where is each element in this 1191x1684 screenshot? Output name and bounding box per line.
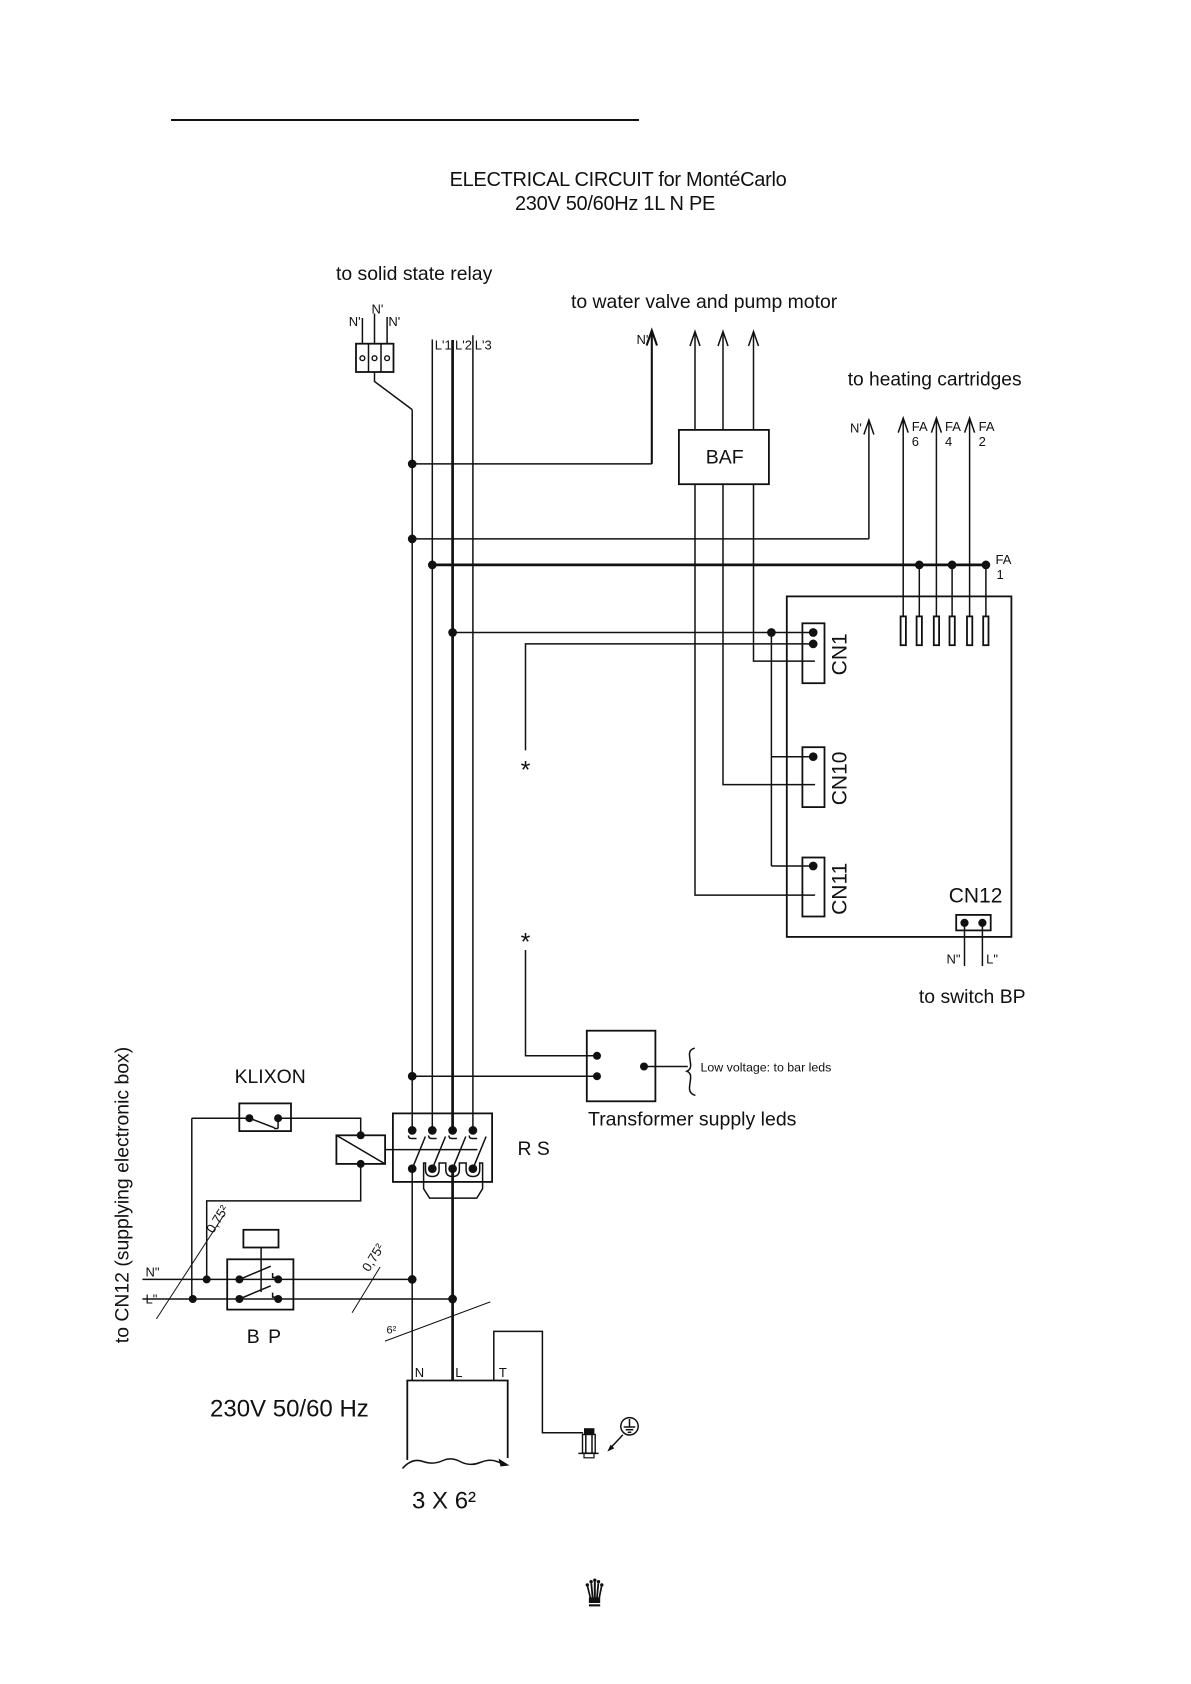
mains cable box	[407, 1381, 507, 1461]
wire N bus to transformer pin	[412, 1075, 597, 1077]
mains cable arrow tip	[499, 1459, 510, 1467]
svg-text:CN12: CN12	[949, 885, 1003, 908]
wire KLIXON right to coil	[278, 1118, 361, 1135]
wire CN12 L" down	[981, 923, 983, 966]
arrow FA6 to heating cartridge	[898, 418, 908, 616]
RS contact 2 bottom node	[428, 1164, 437, 1173]
arrow BAF output 3	[749, 332, 759, 430]
svg-text:to water valve and pump motor: to water valve and pump motor	[571, 291, 838, 313]
RS blade 3	[453, 1137, 466, 1169]
node KLIXON pin right	[274, 1114, 282, 1122]
wire L'1 vertical	[431, 340, 433, 1131]
svg-text:KLIXON: KLIXON	[235, 1066, 306, 1088]
top rule	[171, 119, 639, 121]
earth symbol circle	[621, 1418, 638, 1435]
node N-heating junction	[408, 535, 417, 544]
svg-text:CN10: CN10	[829, 752, 852, 806]
RS contact 4 top node	[469, 1126, 478, 1135]
BP seat lower	[273, 1293, 277, 1298]
wire RS contact3 bold L down	[451, 1169, 454, 1381]
wire pin2 N'	[374, 314, 376, 344]
svg-text:Transformer supply leds: Transformer supply leds	[588, 1109, 797, 1131]
svg-text:230V 50/60 Hz: 230V 50/60 Hz	[210, 1396, 369, 1423]
wire pin1 N'	[361, 318, 363, 344]
relay switch block RS	[393, 1113, 492, 1182]
svg-text:L": L"	[146, 1292, 158, 1307]
svg-text:N': N'	[349, 314, 361, 329]
arrow BAF output 1	[690, 332, 700, 430]
arrow to earth symbol	[607, 1435, 623, 1452]
wire BAF1 to CN11 lower pin	[695, 484, 815, 895]
connector CN10	[802, 747, 824, 807]
wire KLIXON left down to L"	[191, 1118, 193, 1299]
RS contact 1 bottom node	[408, 1164, 417, 1173]
RS bottom bus pouch	[424, 1163, 483, 1198]
node N-transformer junction	[408, 1072, 417, 1081]
transformer box	[587, 1031, 656, 1102]
node CN1 pin2	[809, 640, 818, 649]
wire L" line	[142, 1298, 452, 1300]
arrow FA2 to heating cartridge	[965, 418, 975, 616]
svg-text:*: *	[521, 757, 531, 785]
svg-text:FA: FA	[945, 419, 961, 434]
RS contact 3 bottom node	[448, 1164, 457, 1173]
svg-text:3 X 6²: 3 X 6²	[412, 1488, 476, 1515]
BP blade lower	[239, 1286, 270, 1299]
svg-text:1: 1	[997, 567, 1004, 582]
node CN10 pin	[809, 752, 818, 761]
arrow N' to heating	[864, 420, 874, 539]
relay linkage line	[385, 1149, 477, 1151]
svg-text:Low voltage: to bar leds: Low voltage: to bar leds	[701, 1061, 832, 1075]
thermal switch KLIXON	[239, 1103, 291, 1131]
fuse holder pin 5	[967, 616, 972, 645]
RS contact 4 bottom node	[469, 1164, 478, 1173]
node FA1-fuse6	[982, 561, 991, 570]
RS blade 4	[473, 1137, 486, 1169]
wire RS contact1 down to N"	[411, 1169, 413, 1280]
svg-text:6²: 6²	[387, 1325, 397, 1337]
wire FA1 bold line	[432, 564, 986, 567]
wire KLIXON left lead	[192, 1117, 250, 1119]
svg-text:ELECTRICAL CIRCUIT for MontéCa: ELECTRICAL CIRCUIT for MontéCarlo	[450, 169, 787, 191]
RS contact 1 top node	[408, 1126, 417, 1135]
svg-text:L'1: L'1	[435, 338, 452, 353]
RS blade 2	[432, 1137, 445, 1169]
node L" klixon junction	[189, 1295, 197, 1303]
svg-text:T: T	[499, 1365, 507, 1380]
svg-text:CN11: CN11	[829, 863, 852, 915]
cable mark 0,75 near klixon return	[156, 1215, 223, 1319]
svg-text:L'3: L'3	[475, 338, 492, 353]
svg-text:L: L	[455, 1365, 462, 1380]
wire BAF2 to CN10 lower pin	[723, 484, 815, 784]
earth clamp flange	[578, 1452, 598, 1454]
RS contact 3 top node	[448, 1126, 457, 1135]
fuse holder pin 3	[934, 616, 939, 645]
crown logo	[586, 1579, 604, 1607]
N bus vertical (upper)	[411, 410, 413, 1131]
node transformer output pin	[640, 1063, 648, 1071]
arrow FA4 to heating cartridge	[931, 418, 941, 616]
wire FA1 stub to fuse 6	[985, 565, 987, 617]
push button stem	[260, 1248, 262, 1293]
wire N to water valve arrow	[412, 463, 652, 465]
BP blade upper	[239, 1266, 270, 1279]
svg-text:N': N'	[372, 302, 384, 317]
fuse holder pin 6	[983, 616, 988, 645]
wire BAF3 to CN1 lower pin	[754, 484, 815, 661]
node line A top	[767, 628, 776, 637]
wire L'2 to CN1	[453, 632, 814, 634]
wire pin3 N'	[386, 317, 388, 344]
node transformer pin 2	[593, 1072, 601, 1080]
mains cable wavy end	[403, 1459, 506, 1469]
svg-text:to heating cartridges: to heating cartridges	[848, 370, 1022, 391]
wire N to heating N' arrow	[412, 538, 869, 540]
svg-text:N': N'	[637, 332, 649, 347]
filter BAF	[679, 430, 769, 484]
svg-text:N": N"	[946, 952, 960, 967]
node CN11 pin	[809, 862, 818, 871]
node L-L" junction	[448, 1295, 457, 1304]
earth clamp foot	[584, 1453, 594, 1457]
node coil pin top	[357, 1131, 365, 1139]
node coil pin bottom	[357, 1160, 365, 1168]
fuse holder pin 2	[917, 616, 922, 645]
svg-text:to solid state relay: to solid state relay	[336, 263, 493, 285]
earth clamp body	[583, 1435, 596, 1454]
svg-text:2: 2	[979, 434, 986, 449]
relay coil RS	[336, 1135, 385, 1164]
node CN1 pin1	[809, 628, 818, 637]
push button actuator	[243, 1230, 278, 1248]
wire transformer output	[644, 1066, 688, 1068]
svg-text:FA: FA	[912, 419, 928, 434]
brace low voltage	[687, 1048, 696, 1095]
node BP pin SE	[274, 1295, 282, 1303]
svg-text:L'2: L'2	[455, 338, 472, 353]
earth clamp cap	[584, 1428, 594, 1434]
wire CN12 N" down	[964, 923, 966, 966]
node KLIXON pin left	[245, 1114, 253, 1122]
node CN12 pin L	[978, 919, 986, 927]
svg-text:4: 4	[945, 434, 952, 449]
node BP pin NW	[235, 1275, 243, 1283]
node L'1-FA1 junction	[428, 561, 437, 570]
cable mark 0,75 right of BP	[352, 1267, 380, 1313]
RS blade 1	[412, 1137, 425, 1169]
node coil return to N"	[203, 1275, 211, 1283]
node BP pin NE	[274, 1275, 282, 1283]
wire N down to mains terminal	[411, 1279, 413, 1380]
wire T earth lead	[494, 1331, 583, 1432]
wire CN1 pin2 branch with corner	[526, 644, 814, 751]
node FA1-fuse4	[948, 561, 957, 570]
svg-text:N: N	[415, 1365, 424, 1380]
svg-text:to switch BP: to switch BP	[919, 986, 1026, 1008]
arrow N' to water valve	[647, 331, 657, 464]
svg-text:N": N"	[146, 1265, 160, 1280]
fuse holder pin 4	[950, 616, 955, 645]
svg-text:6: 6	[912, 434, 919, 449]
wire L'3 vertical	[472, 335, 474, 1130]
node N-valve junction	[408, 460, 417, 469]
node RS to N"	[408, 1275, 417, 1284]
node CN12 pin N	[960, 919, 968, 927]
svg-text:R S: R S	[518, 1138, 550, 1160]
wire from block to N bus	[375, 372, 413, 410]
svg-text:FA: FA	[996, 552, 1012, 567]
fuse holder pin 1	[901, 616, 906, 645]
node BP pin SW	[235, 1295, 243, 1303]
switch BP box	[227, 1259, 293, 1309]
svg-text:to CN12 (supplying electronic: to CN12 (supplying electronic box)	[112, 1047, 134, 1343]
node FA1-fuse2	[915, 561, 924, 570]
svg-text:N': N'	[388, 314, 400, 329]
svg-text:N': N'	[850, 421, 862, 436]
terminal block X1 to solid state relay	[356, 344, 394, 372]
wire N" line	[142, 1278, 412, 1280]
wire common L line A	[770, 633, 772, 867]
svg-text:CN1: CN1	[829, 633, 852, 675]
RS contact 2 top node	[428, 1126, 437, 1135]
svg-text:L": L"	[986, 952, 998, 967]
node transformer pin 1	[593, 1052, 601, 1060]
BP seat upper	[273, 1273, 277, 1278]
node L'2 junction	[448, 628, 457, 637]
wire L'2 vertical (bold)	[451, 340, 454, 1130]
RS contact seats	[409, 1136, 478, 1139]
connector CN12	[956, 915, 991, 931]
svg-text:230V 50/60Hz 1L N PE: 230V 50/60Hz 1L N PE	[515, 193, 715, 215]
wire FA1 stub to fuse 4	[951, 565, 953, 617]
wire from asterisk 2 to transformer	[526, 950, 598, 1056]
wire coil bottom return to N"	[207, 1164, 361, 1280]
svg-text:FA: FA	[979, 419, 995, 434]
cable mark 6 sq	[385, 1302, 490, 1341]
wire FA1 stub to fuse 2	[918, 565, 920, 617]
wire line A to CN11 pin	[771, 865, 813, 867]
arrow BAF output 2	[718, 332, 728, 430]
svg-text:BAF: BAF	[706, 447, 744, 469]
electronic board outline	[787, 596, 1012, 937]
svg-text:B P: B P	[247, 1326, 283, 1348]
wire line A to CN10 pin	[771, 756, 813, 758]
connector CN1	[802, 623, 824, 683]
connector CN11	[802, 858, 824, 917]
